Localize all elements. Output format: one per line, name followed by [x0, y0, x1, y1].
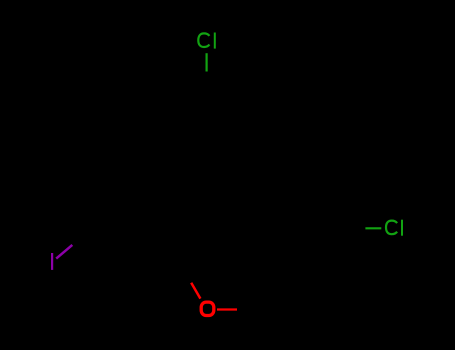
wire: oxygen half of O-CH3 bond (red horizontal stub) [217, 308, 237, 310]
wire: chlorine half of top C-Cl bond (green stub) [206, 53, 208, 71]
wire: chlorine half of right C-Cl bond (green stub) [365, 227, 381, 229]
wire: methyl half of O-CH3 bond [237, 309, 257, 311]
atom I (left, iodine label) [51, 253, 53, 270]
atom Cl (right, chlorine label) [386, 220, 402, 236]
right ring (chlorophenyl) [262, 206, 338, 294]
wire: iodine half of C-I bond (purple stub) [56, 245, 72, 259]
left ring (iodophenyl) [77, 215, 175, 312]
top ring (4-chlorophenyl) [168, 90, 245, 178]
carbon skeleton (black bonds, invisible on black background) [77, 90, 338, 312]
wire: bond central carbon to right ring [175, 228, 263, 256]
wire: bond top ring to central carbon [175, 178, 207, 256]
wire: carbon half of C-O bond [175, 256, 192, 283]
wire: oxygen half of C-O bond (red diagonal stub) [191, 283, 200, 299]
atom O (bottom, ether oxygen label) [201, 302, 214, 315]
atom Cl (top, chlorine label) [198, 33, 215, 49]
